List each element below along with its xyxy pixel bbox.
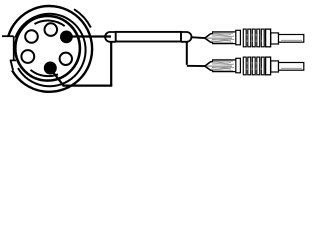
P1 step barrel [271,33,279,44]
P1 collar [266,29,271,47]
P1 rib 2 [248,29,251,47]
pin 3 lower-left (open) [21,50,34,63]
pin 2 upper-left (open) [25,30,38,43]
pin 1 top (open) [45,23,58,36]
P1 tip barrel outline [211,32,236,44]
connector J1 bayonet lug arc [74,9,91,27]
P1 barrel spring texture [211,33,234,42]
P2 rib 1 [243,57,246,75]
wire from pin 6: bottom horizontal segment [63,84,113,86]
P2 rib 2 [248,57,251,75]
wire to plug P2: horizontal segment [187,65,205,67]
P1 rib 4 [257,29,260,47]
connector J1 keyway tab edge [11,60,13,70]
P2 handle [279,63,304,71]
cable left ferrule [105,32,116,42]
connector J1 shell outer ring [8,6,92,92]
pin 5 upper-right (filled, wired) [60,31,73,44]
P2 rib hatch texture [247,62,262,70]
connector J1 keyway notch left edge [13,36,15,60]
P2 step barrel [271,61,279,72]
P1 rib 5 [261,29,264,47]
wire to plug P2: vertical drop [186,42,188,65]
connector J1 shield arc top [35,21,65,27]
P1 rib 3 [252,29,255,47]
pin 6 bottom (filled, wired) [44,62,57,75]
P1 handle [279,35,304,43]
wire from pin 6: vertical riser to cable left ferrule [110,42,112,87]
cable sheath body [116,32,181,42]
P2 tip barrel outline [211,60,236,72]
P2 rib 4 [257,57,260,75]
P1 barrel center slit [206,37,232,39]
connector J1 shield arc bottom [31,70,59,76]
P2 barrel center slit [206,65,232,67]
wire from pin 6: diagonal segment [53,72,64,86]
P2 barrel spring texture [211,61,234,70]
P1 barrel end collar [236,30,241,45]
P2 barrel end collar [236,58,241,73]
P1 rib hatch texture [247,34,262,42]
P2 tip cone [205,62,211,71]
banana plug P1 (top) [205,29,304,47]
connector J1 keyway tab top [10,59,16,61]
connector J1 insulator circle [15,16,80,81]
P2 collar [266,57,271,75]
banana plug P2 (bottom) [205,57,304,75]
P2 handle shading line [281,67,302,69]
P1 rib 1 [243,29,246,47]
connector J1 shell middle ring [15,14,85,86]
P2 rib 5 [261,57,264,75]
pin 4 lower-right (open) [60,53,72,65]
connector J1 keyway notch top line [2,35,14,37]
P1 tip cone [205,34,211,43]
cable right ferrule [181,32,192,42]
wire from cable to plug P1 [191,36,206,39]
wire from pin 5 to cable left ferrule [71,35,111,37]
P2 rib 3 [252,57,255,75]
P1 handle shading line [281,39,302,41]
